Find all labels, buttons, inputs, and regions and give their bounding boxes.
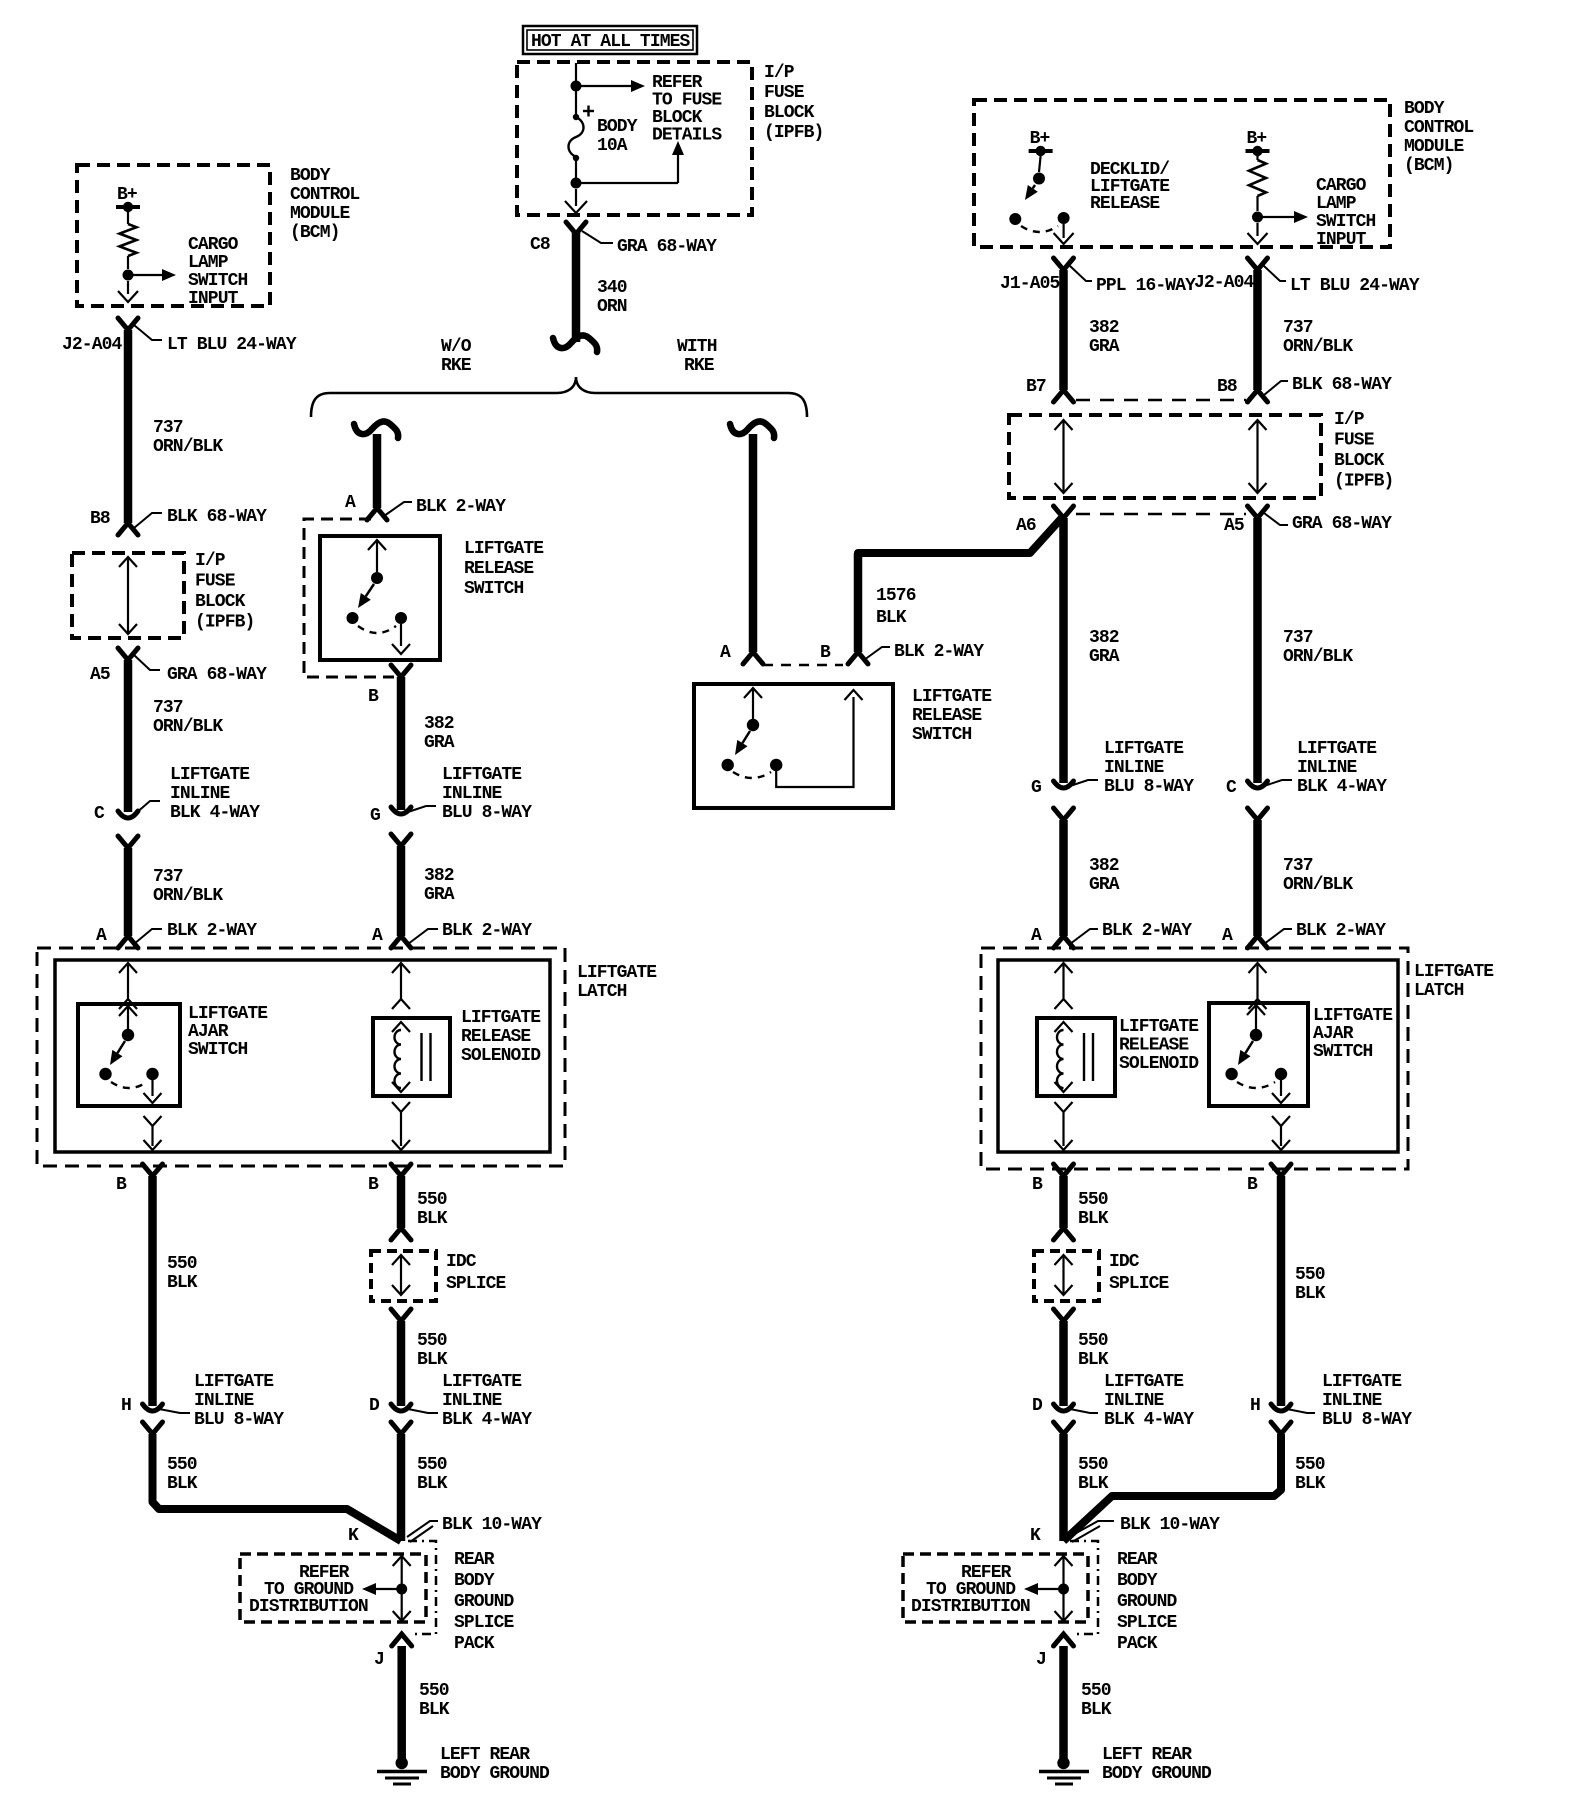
switch contact dot right: [770, 759, 782, 771]
liftgate release switch dashed outline: [304, 519, 394, 677]
svg-text:INPUT: INPUT: [1316, 230, 1367, 250]
svg-text:B7: B7: [1026, 377, 1046, 397]
wire 340 ORN: [572, 232, 581, 342]
svg-text:550: 550: [1295, 1455, 1325, 1475]
ajar contact dot left right: [1225, 1068, 1237, 1080]
svg-text:J2-A04: J2-A04: [1194, 273, 1255, 293]
svg-text:BLK 10-WAY: BLK 10-WAY: [442, 1515, 542, 1535]
wire 737 ORN/BLK to latch right: [1253, 820, 1262, 936]
svg-text:BLK: BLK: [1081, 1700, 1112, 1720]
svg-text:GRA: GRA: [1089, 337, 1120, 357]
dashed link B7 to B8: [1076, 399, 1246, 402]
wire 737 ORN/BLK to latch: [124, 848, 133, 936]
svg-text:RELEASE: RELEASE: [461, 1027, 531, 1047]
terminal B crowfoot col4: [1271, 1164, 1291, 1176]
wire end hook curl: [553, 336, 597, 352]
solenoid coil: [395, 1030, 401, 1088]
svg-text:BODY: BODY: [1404, 99, 1445, 119]
splice junction dot right: [1058, 1584, 1069, 1595]
terminal B crowfoot: [391, 665, 411, 677]
decklid switch pole: [1039, 156, 1041, 172]
svg-text:BLK: BLK: [876, 608, 907, 628]
leader BLK 2-WAY: [408, 929, 438, 944]
svg-text:ORN/BLK: ORN/BLK: [153, 437, 223, 457]
wire end crowfoot at IDC: [391, 1228, 411, 1240]
svg-text:382: 382: [1089, 628, 1119, 648]
svg-text:LIFTGATE: LIFTGATE: [1414, 962, 1494, 982]
svg-text:INLINE: INLINE: [1322, 1391, 1383, 1411]
svg-text:ORN: ORN: [597, 297, 627, 317]
svg-text:BODY: BODY: [597, 117, 638, 137]
leader LIFTGATE INLINE BLU 8-WAY: [159, 1409, 190, 1413]
ajar output arrows right: [1272, 1116, 1290, 1126]
node junction dot: [123, 270, 134, 281]
switch pivot dot: [371, 572, 383, 584]
svg-text:550: 550: [417, 1190, 447, 1210]
svg-text:FUSE: FUSE: [764, 83, 805, 103]
ajar contact dot right: [146, 1068, 158, 1080]
svg-text:BODY GROUND: BODY GROUND: [440, 1764, 550, 1784]
svg-text:LIFTGATE: LIFTGATE: [912, 687, 992, 707]
arrow to ground distribution: [375, 1588, 402, 1590]
svg-text:LAMP: LAMP: [188, 253, 229, 273]
leader LIFTGATE INLINE BLK 4-WAY bottom right: [1070, 1409, 1098, 1413]
svg-text:LIFTGATE: LIFTGATE: [461, 1008, 541, 1028]
fuse BODY 10A symbol: [575, 91, 577, 114]
solenoid core bars: [420, 1033, 422, 1081]
svg-text:BLK 2-WAY: BLK 2-WAY: [1296, 921, 1386, 941]
wire 550 BLK to splice pack K right: [1064, 1434, 1282, 1541]
svg-text:(IPFB): (IPFB): [1334, 472, 1393, 492]
svg-text:ORN/BLK: ORN/BLK: [153, 717, 223, 737]
ajar contact line down: [151, 1080, 153, 1096]
svg-text:PACK: PACK: [454, 1634, 495, 1654]
leader LIFTGATE INLINE BLU 8-WAY: [408, 806, 436, 812]
wire end crowfoot latch A col3: [1054, 936, 1074, 948]
leader BLK 2-WAY col3: [1070, 929, 1098, 944]
arrow to ground distribution right: [1037, 1588, 1064, 1590]
svg-text:GRA: GRA: [1089, 647, 1120, 667]
leader GRA 68-WAY: [134, 655, 160, 670]
svg-text:J: J: [374, 1650, 384, 1670]
connector G lower crowfoot: [391, 834, 411, 846]
svg-text:LIFTGATE: LIFTGATE: [1322, 1372, 1402, 1392]
svg-text:BLK 2-WAY: BLK 2-WAY: [894, 642, 984, 662]
connector A5 right crowfoot: [1248, 506, 1268, 518]
liftgate ajar switch box right: [1209, 1003, 1308, 1106]
svg-text:SWITCH: SWITCH: [912, 725, 972, 745]
I/P fuse block (IPFB) dashed box left: [72, 553, 184, 638]
connector G lower crowfoot right: [1054, 808, 1074, 820]
connector C8 crowfoot: [566, 222, 586, 234]
wire 737 ORN/BLK to liftgate inline: [124, 660, 133, 812]
IDC splice dashed box left: [371, 1251, 436, 1301]
power label box HOT AT ALL TIMES: [523, 26, 697, 54]
switch contact dot left: [722, 759, 734, 771]
arrow CARGO LAMP SWITCH INPUT right: [1258, 216, 1296, 218]
svg-text:550: 550: [417, 1455, 447, 1475]
svg-text:737: 737: [153, 418, 183, 438]
svg-text:550: 550: [167, 1455, 197, 1475]
wire end crowfoot at B8: [118, 523, 138, 535]
svg-text:W/O: W/O: [441, 337, 472, 357]
svg-text:A5: A5: [1224, 516, 1244, 536]
latch input arrows col2: [392, 963, 410, 973]
svg-text:IDC: IDC: [446, 1252, 477, 1272]
splice pack dash-dot frame right: [1070, 1541, 1098, 1634]
svg-text:SOLENOID: SOLENOID: [1119, 1054, 1199, 1074]
svg-text:INLINE: INLINE: [442, 1391, 503, 1411]
svg-text:A: A: [1031, 926, 1042, 946]
connector A5 crowfoot: [118, 648, 138, 660]
ajar contact dot right right: [1275, 1068, 1287, 1080]
svg-text:550: 550: [417, 1331, 447, 1351]
svg-text:H: H: [121, 1396, 131, 1416]
svg-text:CONTROL: CONTROL: [1404, 118, 1473, 138]
leader LT BLU 24-WAY right: [1264, 266, 1286, 281]
svg-text:340: 340: [597, 278, 627, 298]
connector C cup: [118, 811, 138, 818]
IDC pass-through arrow right: [1055, 1255, 1073, 1265]
dashed link A6 to A5: [1076, 513, 1246, 516]
switch arm with arrowhead: [366, 584, 374, 596]
leader BLK 68-WAY right: [1264, 381, 1288, 395]
svg-text:737: 737: [1283, 628, 1313, 648]
svg-text:BLK: BLK: [419, 1700, 450, 1720]
svg-text:10A: 10A: [597, 136, 628, 156]
liftgate latch outer dashed box right: [981, 948, 1408, 1169]
leader LIFTGATE INLINE BLU 8-WAY right: [1070, 780, 1098, 786]
wire 550 BLK to IDC splice: [397, 1176, 406, 1228]
svg-text:INPUT: INPUT: [188, 289, 239, 309]
leader BLK 2-WAY: [134, 929, 162, 944]
body control module (BCM) dashed box right: [974, 100, 1390, 247]
svg-text:382: 382: [1089, 318, 1119, 338]
ajar output arrows: [144, 1116, 162, 1126]
svg-text:BLK 68-WAY: BLK 68-WAY: [1292, 375, 1392, 395]
svg-text:H: H: [1250, 1396, 1260, 1416]
svg-text:SWITCH: SWITCH: [464, 579, 524, 599]
svg-text:550: 550: [1081, 1681, 1111, 1701]
svg-text:K: K: [348, 1526, 359, 1546]
svg-text:RKE: RKE: [441, 356, 472, 376]
svg-text:B: B: [116, 1175, 127, 1195]
svg-text:BODY: BODY: [1117, 1571, 1158, 1591]
svg-text:BODY: BODY: [454, 1571, 495, 1591]
svg-text:FUSE: FUSE: [195, 572, 236, 592]
ground symbol left rear body ground right: [1057, 1757, 1069, 1769]
svg-text:GROUND: GROUND: [1117, 1592, 1178, 1612]
leader BLK 2-WAY: [864, 647, 890, 660]
wire 1576 BLK from A6: [858, 516, 1064, 562]
splice pass-through arrow: [393, 1556, 411, 1566]
wire 382 GRA to latch right: [1059, 820, 1068, 936]
svg-text:737: 737: [153, 698, 183, 718]
decklid dashed arc: [1021, 226, 1058, 232]
dashed link A to B: [763, 664, 843, 667]
svg-text:HOT AT ALL TIMES: HOT AT ALL TIMES: [531, 32, 691, 52]
ajar contact dot left: [99, 1068, 111, 1080]
wire 550 BLK to IDC right: [1059, 1176, 1068, 1228]
svg-text:ORN/BLK: ORN/BLK: [1283, 647, 1353, 667]
wire from brace to liftgate release switch: [373, 434, 382, 508]
svg-text:CARGO: CARGO: [1316, 176, 1367, 196]
svg-text:BLK: BLK: [1078, 1209, 1109, 1229]
svg-text:B: B: [1032, 1175, 1043, 1195]
svg-text:A: A: [720, 643, 731, 663]
IDC splice dashed box right: [1034, 1251, 1099, 1301]
resistor cargo lamp right: [1256, 156, 1258, 160]
wire end crowfoot at latch A: [118, 936, 138, 948]
crowfoot below IDC right: [1054, 1309, 1074, 1321]
svg-text:BLK: BLK: [417, 1350, 448, 1370]
wire 382 GRA from switch to G: [397, 677, 406, 810]
latch input arrows col3: [1055, 963, 1073, 973]
connector G right cup: [1054, 781, 1074, 788]
svg-text:PACK: PACK: [1117, 1634, 1158, 1654]
splice pack dash-dot frame: [408, 1541, 436, 1634]
solenoid output arrows: [392, 1102, 410, 1112]
wire end crowfoot latch A col4: [1248, 936, 1268, 948]
leader BLK 2-WAY: [384, 502, 412, 516]
wire 550 BLK to K: [397, 1434, 406, 1541]
I/P fuse block (IPFB) dashed box right: [1009, 415, 1321, 498]
switch contact dot right: [395, 612, 407, 624]
decklid contact dot left: [1009, 213, 1021, 225]
svg-text:INLINE: INLINE: [1297, 758, 1358, 778]
svg-text:BLOCK: BLOCK: [1334, 451, 1385, 471]
svg-text:BLK: BLK: [167, 1273, 198, 1293]
arrow up to DETAILS: [576, 182, 678, 184]
IDC pass-through arrow: [392, 1255, 410, 1265]
svg-text:BLK 10-WAY: BLK 10-WAY: [1120, 1515, 1220, 1535]
leader LIFTGATE INLINE BLK 4-WAY: [135, 801, 160, 814]
ajar pivot dot right: [1250, 1029, 1262, 1041]
connector D lower crowfoot right: [1054, 1422, 1074, 1434]
svg-text:BODY GROUND: BODY GROUND: [1102, 1764, 1212, 1784]
svg-text:J2-A04: J2-A04: [62, 335, 123, 355]
svg-text:DETAILS: DETAILS: [652, 126, 722, 146]
svg-text:ORN/BLK: ORN/BLK: [1283, 337, 1353, 357]
leader BLK 10-WAY: [407, 1521, 438, 1537]
svg-text:GRA 68-WAY: GRA 68-WAY: [617, 237, 717, 257]
switch pivot dot: [747, 719, 759, 731]
svg-text:B: B: [1247, 1175, 1258, 1195]
svg-text:BLK: BLK: [1295, 1284, 1326, 1304]
svg-text:LT BLU 24-WAY: LT BLU 24-WAY: [1290, 276, 1420, 296]
svg-text:FUSE: FUSE: [1334, 431, 1375, 451]
svg-text:BLU 8-WAY: BLU 8-WAY: [442, 803, 532, 823]
connector J2-A04 right crowfoot: [1248, 258, 1268, 270]
svg-text:LIFTGATE: LIFTGATE: [1297, 739, 1377, 759]
svg-text:B: B: [820, 643, 831, 663]
wire hook at W/O RKE branch start: [354, 422, 398, 438]
svg-text:382: 382: [1089, 856, 1119, 876]
ajar dashed arc right: [1237, 1082, 1275, 1088]
svg-text:BLK 4-WAY: BLK 4-WAY: [1104, 1410, 1194, 1430]
connector A6 crowfoot: [1054, 506, 1074, 518]
fuse block pass-through arrow col4: [1249, 420, 1267, 430]
liftgate release solenoid box right: [1037, 1018, 1115, 1096]
svg-text:A: A: [345, 493, 356, 513]
wire 550 BLK to K right: [1059, 1434, 1068, 1541]
svg-text:382: 382: [424, 714, 454, 734]
liftgate release solenoid box left: [373, 1018, 450, 1096]
wire end crowfoot at A: [743, 652, 763, 664]
switch pole arrow up: [744, 688, 762, 698]
connector C lower crowfoot right: [1248, 808, 1268, 820]
svg-text:550: 550: [419, 1681, 449, 1701]
svg-text:I/P: I/P: [1334, 410, 1365, 430]
node junction dot lower: [571, 178, 582, 189]
wire 550 BLK to H: [148, 1176, 157, 1406]
svg-text:I/P: I/P: [764, 63, 795, 83]
svg-text:RELEASE: RELEASE: [1090, 194, 1160, 214]
svg-text:LATCH: LATCH: [1414, 981, 1464, 1001]
svg-text:LIFTGATE: LIFTGATE: [1119, 1017, 1199, 1037]
ajar pivot dot: [122, 1029, 134, 1041]
svg-text:J1-A05: J1-A05: [1000, 274, 1060, 294]
svg-text:PPL 16-WAY: PPL 16-WAY: [1096, 276, 1196, 296]
svg-text:LIFTGATE: LIFTGATE: [442, 1372, 522, 1392]
svg-text:1576: 1576: [876, 586, 916, 606]
arrow CARGO LAMP SWITCH INPUT: [128, 274, 163, 276]
switch contact dot left: [347, 612, 359, 624]
svg-text:LEFT REAR: LEFT REAR: [440, 1745, 530, 1765]
svg-text:INLINE: INLINE: [442, 784, 503, 804]
solenoid coil right: [1057, 1030, 1064, 1088]
body control module (BCM) dashed box left: [77, 165, 270, 306]
svg-text:LIFTGATE: LIFTGATE: [442, 765, 522, 785]
svg-text:SPLICE: SPLICE: [1109, 1274, 1170, 1294]
leader BLK 2-WAY col4: [1264, 929, 1292, 944]
leader BLK 68-WAY: [134, 513, 162, 528]
solenoid core bars right: [1083, 1033, 1085, 1081]
connector D cup: [391, 1404, 411, 1411]
svg-text:MODULE: MODULE: [290, 204, 351, 224]
svg-text:LIFTGATE: LIFTGATE: [188, 1004, 268, 1024]
leader GRA 68-WAY right: [1264, 513, 1288, 525]
connector H cup: [143, 1404, 163, 1411]
wire from brace to right release switch: [749, 434, 758, 652]
splice junction dot: [396, 1584, 407, 1595]
svg-text:J: J: [1036, 1650, 1046, 1670]
svg-text:AJAR: AJAR: [188, 1022, 229, 1042]
connector D right cup: [1054, 1404, 1074, 1411]
switch arm with arrowhead: [742, 731, 750, 743]
svg-text:SWITCH: SWITCH: [188, 271, 248, 291]
svg-text:(BCM): (BCM): [290, 223, 340, 243]
svg-text:(IPFB): (IPFB): [195, 613, 254, 633]
solenoid output arrows right: [1055, 1102, 1073, 1112]
wire 550 BLK to H right: [1277, 1176, 1286, 1406]
svg-text:DISTRIBUTION: DISTRIBUTION: [249, 1597, 368, 1617]
svg-text:LT BLU 24-WAY: LT BLU 24-WAY: [167, 335, 297, 355]
ajar dashed arc: [111, 1082, 147, 1088]
ajar switch pole: [119, 1006, 137, 1016]
svg-text:BLK: BLK: [417, 1209, 448, 1229]
latch input arrows col1: [119, 963, 137, 973]
svg-text:GRA 68-WAY: GRA 68-WAY: [1292, 514, 1392, 534]
svg-text:LIFTGATE: LIFTGATE: [1313, 1006, 1393, 1026]
down chevron to BCM edge right: [1256, 223, 1258, 236]
arrow to REFER TO FUSE BLOCK DETAILS: [576, 85, 632, 87]
svg-text:RELEASE: RELEASE: [912, 706, 982, 726]
connector C right cup: [1248, 781, 1268, 788]
connector J crowfoot right: [1054, 1634, 1074, 1646]
connector J crowfoot: [392, 1634, 412, 1646]
leader LT BLU 24-WAY: [134, 325, 162, 340]
svg-text:LATCH: LATCH: [577, 982, 627, 1002]
wire end crowfoot B7: [1054, 390, 1074, 402]
svg-text:B: B: [368, 1175, 379, 1195]
svg-text:A: A: [372, 926, 383, 946]
rear body ground splice pack dashed box right: [903, 1554, 1088, 1622]
svg-text:SPLICE: SPLICE: [454, 1613, 515, 1633]
wire 550 BLK to splice pack K: [153, 1434, 402, 1541]
svg-text:RKE: RKE: [684, 356, 715, 376]
connector J1-A05 crowfoot: [1054, 258, 1074, 270]
wire hook at WITH RKE branch start: [730, 422, 774, 438]
ajar switch pole right: [1247, 1005, 1265, 1015]
svg-text:REAR: REAR: [1117, 1550, 1158, 1570]
rear body ground splice pack dashed box: [240, 1554, 426, 1622]
fuse block pass-through arrow col3: [1055, 420, 1073, 430]
connector D lower crowfoot: [391, 1422, 411, 1434]
svg-text:RELEASE: RELEASE: [1119, 1036, 1189, 1056]
svg-text:CONTROL: CONTROL: [290, 185, 359, 205]
node junction dot: [1252, 212, 1263, 223]
dashed arc between contacts: [733, 772, 771, 778]
svg-text:D: D: [369, 1396, 380, 1416]
svg-text:B8: B8: [1217, 377, 1237, 397]
svg-text:INLINE: INLINE: [1104, 1391, 1165, 1411]
svg-text:GROUND: GROUND: [454, 1592, 515, 1612]
svg-text:BLK: BLK: [1295, 1474, 1326, 1494]
svg-text:LEFT REAR: LEFT REAR: [1102, 1745, 1192, 1765]
svg-text:BLK 4-WAY: BLK 4-WAY: [442, 1410, 532, 1430]
connector J2-A04 crowfoot: [118, 318, 138, 330]
wire end crowfoot at A: [367, 508, 387, 520]
svg-text:LIFTGATE: LIFTGATE: [1104, 739, 1184, 759]
svg-text:C: C: [1226, 778, 1237, 798]
svg-text:D: D: [1032, 1396, 1043, 1416]
svg-text:BLU 8-WAY: BLU 8-WAY: [194, 1410, 284, 1430]
svg-text:INLINE: INLINE: [170, 784, 231, 804]
svg-text:LIFTGATE: LIFTGATE: [170, 765, 250, 785]
decklid pivot dot: [1033, 173, 1045, 185]
svg-text:BLK 2-WAY: BLK 2-WAY: [416, 497, 506, 517]
node junction dot: [571, 81, 582, 92]
svg-text:G: G: [1031, 778, 1041, 798]
leader GRA 68-WAY: [582, 231, 613, 243]
solenoid bottom chevron: [392, 1082, 410, 1092]
svg-text:A6: A6: [1016, 516, 1036, 536]
svg-text:G: G: [370, 806, 380, 826]
svg-text:C: C: [94, 804, 105, 824]
svg-text:IDC: IDC: [1109, 1252, 1140, 1272]
svg-text:BLK 2-WAY: BLK 2-WAY: [442, 921, 532, 941]
svg-text:GRA: GRA: [1089, 875, 1120, 895]
wire end crowfoot at latch A: [391, 936, 411, 948]
liftgate ajar switch box: [78, 1004, 180, 1106]
ajar contact line down right: [1280, 1080, 1282, 1096]
solenoid top chevron: [392, 1022, 410, 1032]
svg-text:BLK: BLK: [417, 1474, 448, 1494]
svg-text:SWITCH: SWITCH: [188, 1040, 248, 1060]
wire end crowfoot at IDC right: [1054, 1228, 1074, 1240]
contact wire to terminal B inside box: [776, 697, 853, 787]
